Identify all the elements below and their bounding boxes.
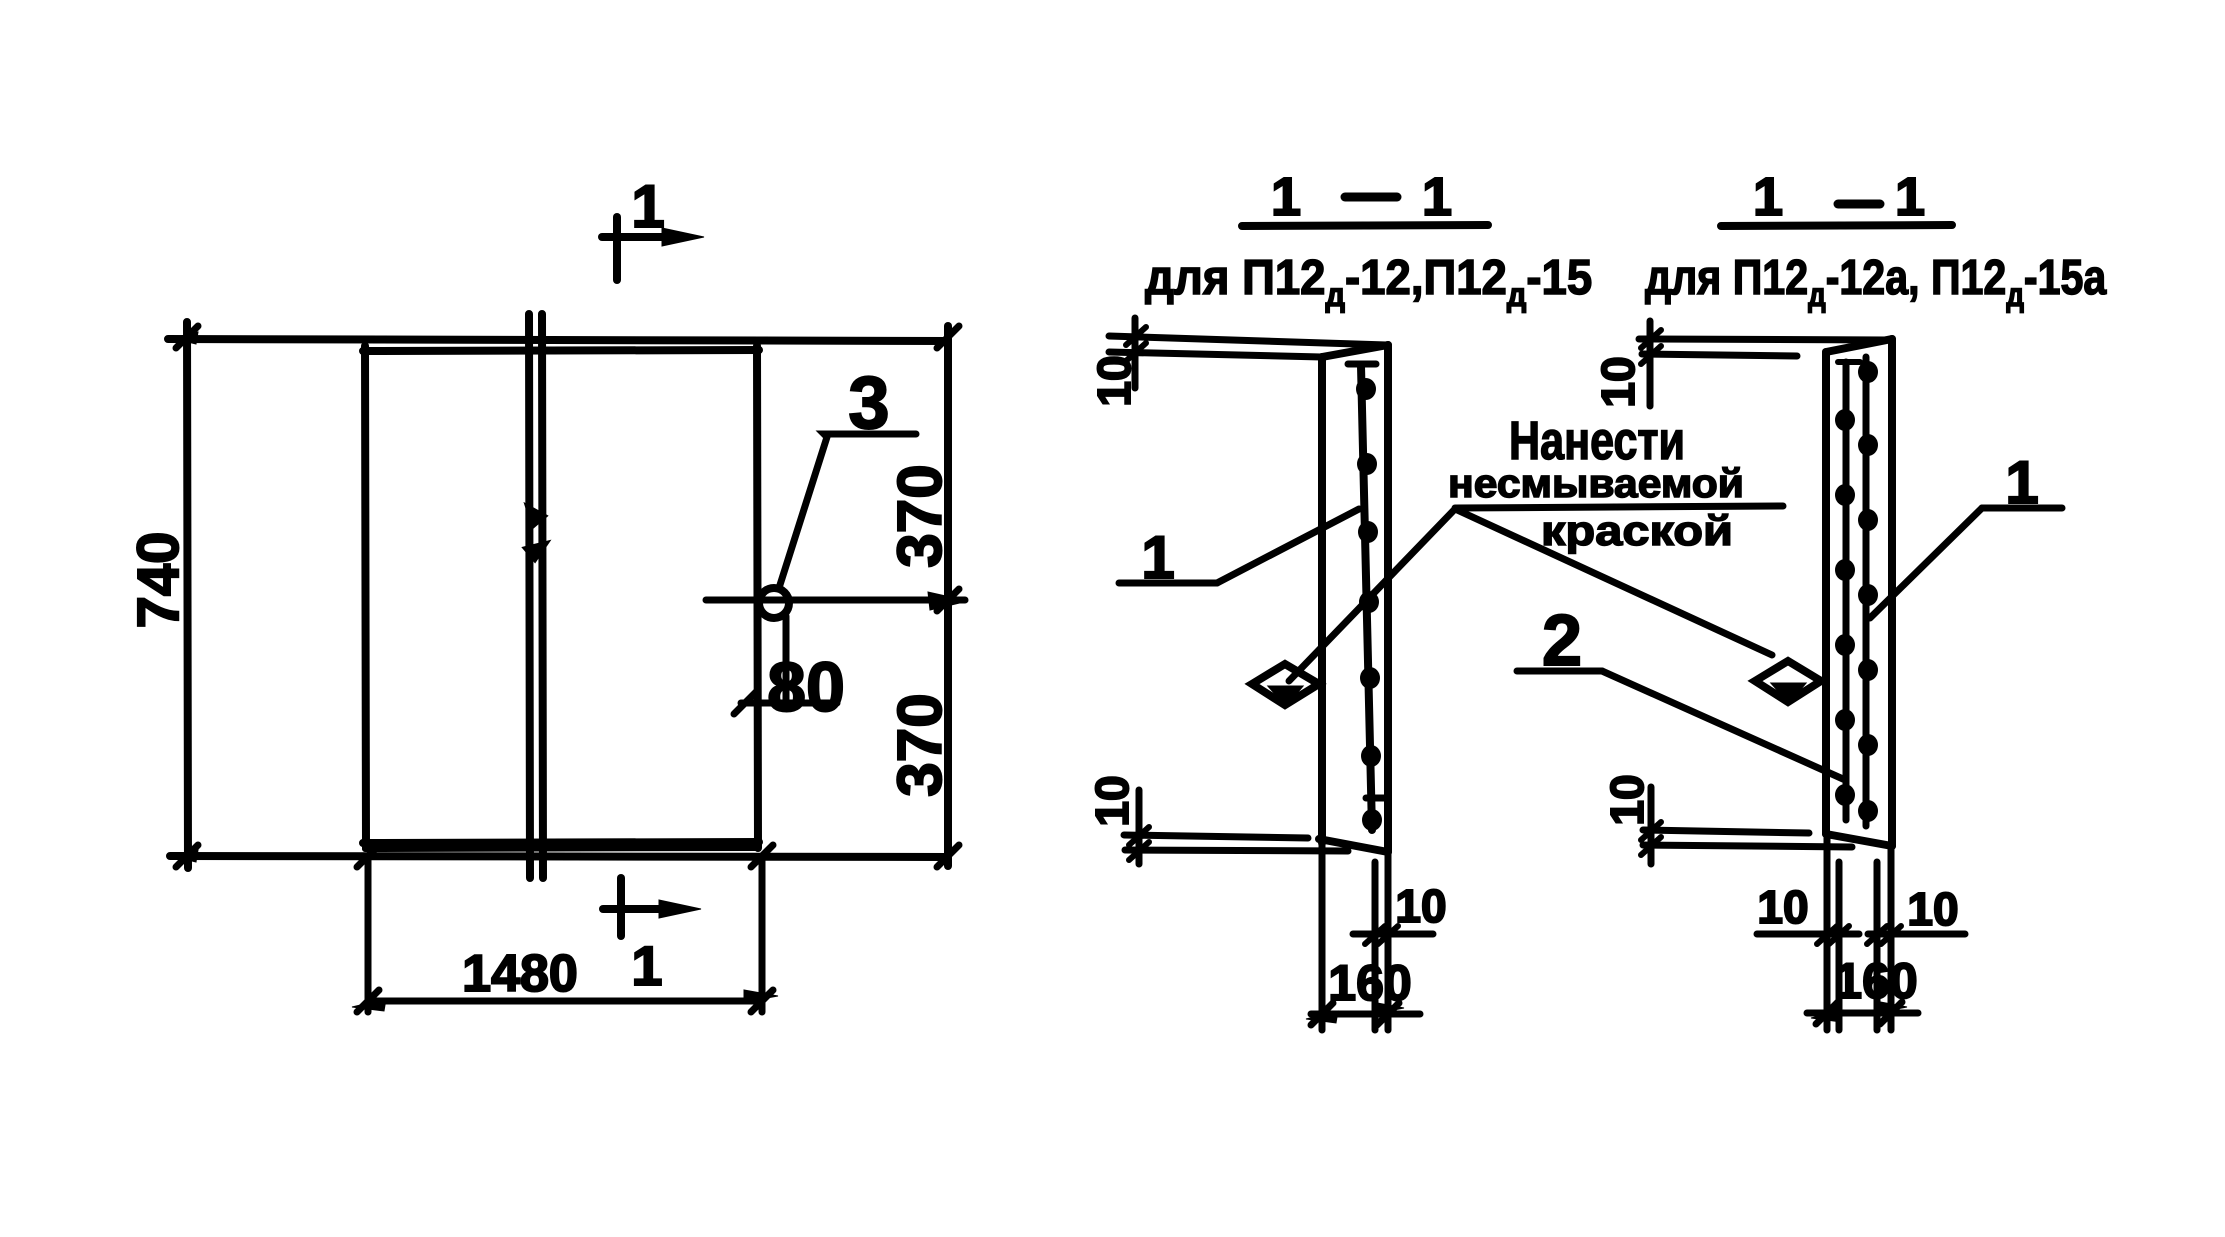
rebar line [1361, 366, 1372, 830]
rebar right dot 1 [1858, 361, 1878, 383]
hole circle [759, 588, 789, 618]
top 10 line inner [1642, 354, 1797, 356]
rebar right dot 6 [1858, 734, 1878, 756]
mid dimension line through hole [706, 597, 965, 604]
tick right 10 at 1891 [1881, 926, 1901, 944]
header underline [1242, 225, 1488, 226]
section mark top arrowhead [662, 228, 704, 246]
element bottom edge [1826, 834, 1892, 846]
centre joint line left [529, 314, 530, 878]
tick 80 dim left [734, 692, 756, 714]
tick right 10 at 1877 [1867, 926, 1887, 944]
extension line 1480 right [759, 858, 766, 1012]
rebar right dot 4 [1858, 584, 1878, 606]
top 10 line outer [1639, 339, 1889, 340]
element top edge [1322, 345, 1388, 357]
header dash [1345, 193, 1397, 202]
bottom 10 line lower [1643, 845, 1852, 847]
svg-text:1: 1 [1271, 167, 1301, 227]
arrow 160 right [1875, 1001, 1907, 1013]
rebar dot 4 [1359, 591, 1379, 613]
bottom 10 line upper [1643, 830, 1809, 833]
tick top-left corner [176, 326, 198, 348]
svg-text:160: 160 [1328, 955, 1411, 1011]
svg-text:для П12д-12а, П12д-15а: для П12д-12а, П12д-15а [1645, 250, 2107, 314]
svg-text:10: 10 [1088, 355, 1140, 406]
tick bottom-right corner [937, 845, 959, 867]
element left edge [1822, 352, 1830, 834]
rebar dot 1 [1356, 378, 1376, 400]
rebar dot 2 [1357, 453, 1377, 475]
svg-text:370: 370 [886, 464, 955, 567]
diamond B centre fill [1773, 684, 1804, 702]
bottom 10 line lower [1125, 850, 1348, 851]
80 dimension line [741, 700, 837, 707]
tick bottom 10 lower [1641, 837, 1661, 855]
svg-text:1: 1 [1422, 167, 1452, 227]
rebar dot 3 [1358, 521, 1378, 543]
header dash [1838, 200, 1880, 209]
arrow bottom-left pointing left [172, 850, 198, 862]
rebar dot 7 [1362, 809, 1382, 831]
element right extension below [1385, 852, 1392, 1030]
arrow 160 left [1811, 1010, 1843, 1022]
tick bottom 10 upper [1129, 827, 1149, 845]
right 10 dimension line [1353, 931, 1433, 938]
leader 1 bar [1982, 505, 2062, 512]
panel outline top edge [363, 350, 759, 351]
rebar dot 5 [1360, 667, 1380, 689]
svg-text:1: 1 [1895, 167, 1925, 227]
svg-text:1: 1 [631, 173, 664, 240]
rebar left dot 5 [1835, 709, 1855, 731]
tick bottom dim at x368 [357, 845, 379, 867]
extension line 1480 left [365, 858, 372, 1012]
tick bottom 10 lower [1129, 842, 1149, 860]
rebar left dot 2 [1835, 484, 1855, 506]
leader 1 bar [1119, 580, 1217, 587]
top 10 line inner [1109, 352, 1322, 357]
tick right 10 at 1375 [1365, 926, 1385, 944]
header underline [1721, 225, 1952, 226]
rebar left dot 3 [1835, 559, 1855, 581]
diamond B [1755, 661, 1821, 702]
label 2 bar [1517, 668, 1602, 675]
rebar line left [1843, 362, 1850, 820]
160 dimension line [1807, 1010, 1918, 1017]
svg-text:160: 160 [1834, 953, 1917, 1009]
tick top 10 lower [1641, 346, 1661, 364]
tick 1480 left [357, 990, 379, 1012]
element right edge [1384, 345, 1392, 852]
arrow top-left pointing left [172, 332, 198, 344]
svg-text:1: 1 [631, 934, 662, 997]
diamond A [1252, 664, 1319, 705]
rebar right dot 3 [1858, 509, 1878, 531]
panel outline left edge [365, 346, 366, 848]
right dimension line [944, 326, 952, 866]
panel bottom edge second stroke [365, 848, 757, 849]
tick left 10 at 1839 [1829, 926, 1849, 944]
arrow 1480 left [352, 999, 386, 1011]
section mark bottom vertical [617, 878, 625, 936]
bottom 10 extension vertical [1648, 787, 1655, 864]
tick 160 right [1880, 1002, 1902, 1024]
centre joint arrow lower [524, 542, 548, 561]
section mark bottom arrow line [603, 905, 669, 913]
rebar line right [1863, 357, 1870, 826]
bottom dimension line [170, 856, 948, 857]
tick mid dim at right dim line [937, 589, 959, 611]
rebar left dot 6 [1835, 784, 1855, 806]
svg-text:10: 10 [1086, 775, 1138, 826]
rebar bottom hook [1366, 795, 1384, 802]
leader 1 diagonal [1217, 509, 1359, 583]
diamond A centre fill [1270, 687, 1301, 705]
arrow 1480 right [744, 990, 778, 1002]
svg-text:10: 10 [1592, 356, 1644, 407]
svg-text:3: 3 [848, 361, 889, 444]
tick 160 right [1377, 1003, 1399, 1025]
centre joint arrow upper [526, 505, 546, 527]
element left extension below [1319, 843, 1326, 1030]
rebar right dot 5 [1858, 659, 1878, 681]
top dimension line [168, 339, 948, 341]
panel outline right edge [757, 346, 758, 848]
element right extension below [1888, 846, 1895, 1030]
rebar dot 6 [1361, 745, 1381, 767]
bottom 10 line upper [1124, 835, 1308, 838]
leader line to label 3 [779, 434, 916, 588]
inner extension below [1372, 862, 1379, 1030]
panel outline bottom edge [363, 842, 759, 843]
right 10 dimension line [1868, 931, 1965, 938]
svg-text:1: 1 [1753, 167, 1783, 227]
rebar right dot 7 [1858, 800, 1878, 822]
tick top 10 upper [1641, 330, 1661, 348]
rebar left top hook [1838, 359, 1860, 365]
svg-text:10: 10 [1907, 883, 1958, 935]
paint leader to diamond B [1455, 509, 1772, 655]
element top edge [1826, 339, 1892, 352]
svg-text:1480: 1480 [462, 945, 578, 1003]
label 2 diagonal [1602, 671, 1843, 779]
bottom 10 extension vertical [1136, 790, 1143, 864]
svg-text:10: 10 [1601, 774, 1653, 825]
rebar left dot 4 [1835, 634, 1855, 656]
section mark top vertical [613, 217, 621, 280]
right inner extension below [1874, 862, 1881, 1030]
tick left 10 at 1827 [1817, 926, 1837, 944]
paint leader to diamond A [1289, 509, 1455, 681]
top 10 extension vertical [1647, 321, 1654, 406]
svg-text:370: 370 [886, 693, 955, 796]
tick top 10 lower [1126, 343, 1146, 361]
tick right 10 at 1388 [1378, 926, 1398, 944]
tick 160 left [1816, 1002, 1838, 1024]
left dimension line [187, 322, 188, 868]
tick 1480 right [751, 990, 773, 1012]
left inner extension below [1836, 862, 1843, 1030]
element left extension below [1824, 834, 1831, 1030]
rebar top hook [1348, 361, 1376, 368]
element bottom edge [1319, 839, 1388, 852]
1480 dimension line [368, 998, 762, 1005]
svg-text:несмываемой: несмываемой [1448, 462, 1744, 506]
top 10 line outer [1109, 336, 1387, 345]
centre joint line right [542, 314, 543, 878]
svg-text:740: 740 [126, 532, 191, 629]
leader bar under text [1455, 506, 1783, 508]
svg-text:10: 10 [1395, 880, 1446, 932]
tick bottom 10 upper [1641, 822, 1661, 840]
arrow mid dim pointing right [928, 592, 968, 610]
section mark top arrow line [602, 233, 668, 241]
rebar right dot 2 [1858, 434, 1878, 456]
tick top 10 upper [1126, 327, 1146, 345]
left 10 dimension line [1757, 931, 1859, 938]
tick bottom-left corner [176, 845, 198, 867]
rebar left dot 1 [1835, 409, 1855, 431]
svg-text:80: 80 [767, 648, 845, 726]
element right edge [1888, 339, 1896, 846]
tick top-right corner [937, 326, 959, 348]
svg-text:10: 10 [1757, 881, 1808, 933]
top 10 extension vertical [1132, 318, 1139, 388]
vertical line below hole [783, 616, 790, 708]
arrow 160 right [1372, 1002, 1404, 1014]
section mark bottom arrowhead [659, 900, 701, 918]
arrow 160 left [1306, 1011, 1338, 1023]
160 dimension line [1311, 1011, 1420, 1018]
svg-text:краской: краской [1541, 507, 1733, 554]
element left edge [1318, 357, 1326, 843]
tick 160 left [1311, 1003, 1333, 1025]
tick bottom dim at x762 [751, 845, 773, 867]
leader 1 diagonal [1870, 508, 1982, 618]
